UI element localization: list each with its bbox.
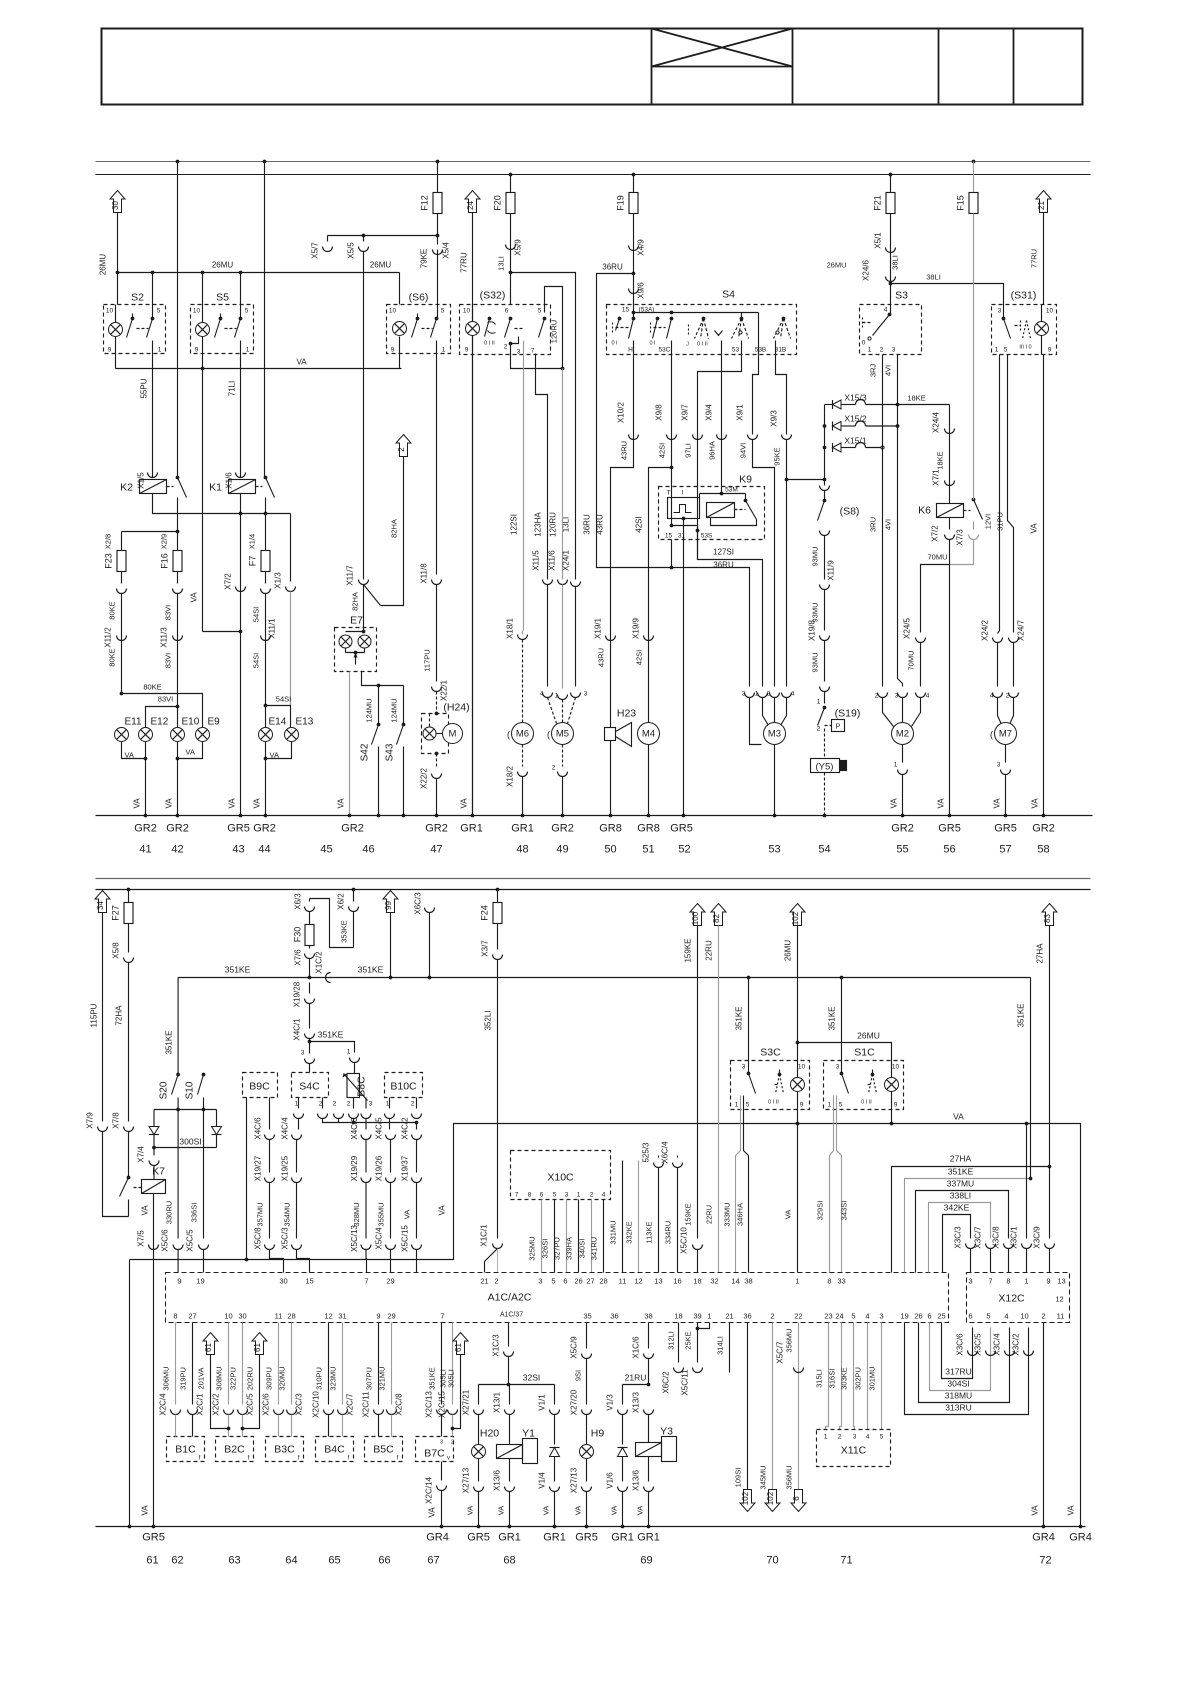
svg-text:3: 3 bbox=[853, 1434, 857, 1441]
svg-text:X2C/1: X2C/1 bbox=[196, 1393, 205, 1416]
connector X19/28 bbox=[305, 999, 315, 1004]
svg-text:5: 5 bbox=[553, 1192, 557, 1199]
wire bus to K1 contact bbox=[264, 162, 266, 478]
wire 310PU pin12 to B4C bbox=[328, 1323, 330, 1405]
S5 link dashed bbox=[225, 328, 237, 330]
svg-text:GR2: GR2 bbox=[891, 823, 914, 835]
wire S31 pin9 to ground bbox=[1043, 355, 1045, 816]
svg-text:X7/4: X7/4 bbox=[137, 1146, 146, 1163]
title block crossed cell bbox=[651, 29, 653, 105]
svg-text:9: 9 bbox=[894, 1102, 898, 1109]
connector S4C pin3 bbox=[305, 1059, 315, 1064]
relay K2 bbox=[140, 480, 167, 494]
svg-text:X7/2: X7/2 bbox=[931, 525, 940, 542]
wire 351KE to S1C bbox=[840, 976, 844, 980]
svg-text:42SI: 42SI bbox=[635, 650, 644, 665]
svg-text:70: 70 bbox=[766, 1555, 778, 1567]
junction 54SI bbox=[264, 704, 268, 708]
svg-text:69: 69 bbox=[640, 1555, 652, 1567]
svg-text:F19: F19 bbox=[616, 195, 626, 211]
wire B9C right pin bbox=[269, 1098, 271, 1130]
wire S3C pin9 to VA bbox=[797, 1110, 799, 1124]
svg-text:X24/4: X24/4 bbox=[932, 411, 941, 432]
connector M5 pin2 bbox=[558, 772, 568, 777]
svg-text:64: 64 bbox=[285, 1555, 297, 1567]
svg-text:325MU: 325MU bbox=[528, 1236, 537, 1260]
wire H23 to ground bbox=[610, 741, 612, 816]
junction X5/5 bbox=[362, 234, 366, 238]
connector X5C/9 bbox=[582, 1354, 592, 1359]
svg-text:X1/5: X1/5 bbox=[137, 472, 146, 489]
svg-text:3: 3 bbox=[892, 347, 896, 354]
link rail below sensors bbox=[323, 1119, 417, 1130]
svg-text:26: 26 bbox=[914, 1312, 922, 1321]
svg-text:X1C/6: X1C/6 bbox=[632, 1336, 641, 1359]
svg-text:VA: VA bbox=[784, 1210, 793, 1219]
svg-text:X5/5: X5/5 bbox=[347, 242, 356, 259]
svg-text:VA: VA bbox=[890, 798, 899, 809]
wire K1 contact down bbox=[265, 498, 267, 514]
svg-text:32SI: 32SI bbox=[523, 1373, 541, 1383]
svg-text:VA: VA bbox=[636, 1506, 645, 1515]
S32 pin 2 junction bbox=[509, 342, 513, 346]
svg-text:S5: S5 bbox=[216, 292, 229, 304]
wires S3C pins down bbox=[736, 1096, 741, 1156]
svg-text:159KE: 159KE bbox=[684, 1203, 693, 1226]
svg-text:201VA: 201VA bbox=[197, 1368, 206, 1390]
wire 21RU rail bbox=[648, 1323, 650, 1349]
relay K7 bbox=[142, 1180, 166, 1194]
junction S4 rail bbox=[670, 311, 674, 315]
wire 338LI bracket pin24 to X3C/7 bbox=[929, 1203, 991, 1273]
svg-text:2: 2 bbox=[767, 691, 771, 698]
svg-text:K1: K1 bbox=[209, 482, 222, 494]
svg-text:VA: VA bbox=[610, 1506, 619, 1515]
svg-text:X4C/1: X4C/1 bbox=[293, 1018, 302, 1041]
svg-text:31PU: 31PU bbox=[996, 512, 1005, 531]
svg-text:16: 16 bbox=[673, 1277, 681, 1286]
svg-text:X19/37: X19/37 bbox=[401, 1155, 410, 1181]
connector X27/13 b bbox=[582, 1487, 592, 1492]
svg-text:12: 12 bbox=[324, 1312, 332, 1321]
svg-text:80KE: 80KE bbox=[108, 648, 117, 666]
svg-text:X3C/6: X3C/6 bbox=[956, 1333, 965, 1356]
svg-text:124MU: 124MU bbox=[390, 698, 399, 722]
svg-text:X22/2: X22/2 bbox=[420, 767, 429, 788]
svg-text:31: 31 bbox=[678, 533, 686, 540]
K2 contact bbox=[176, 476, 180, 480]
svg-text:30: 30 bbox=[279, 1277, 287, 1286]
svg-text:GR2: GR2 bbox=[551, 823, 574, 835]
motor M3 bbox=[764, 723, 786, 745]
svg-text:351KE: 351KE bbox=[828, 1006, 837, 1030]
svg-text:14: 14 bbox=[731, 1277, 739, 1286]
svg-text:339HA: 339HA bbox=[565, 1237, 574, 1260]
svg-text:11: 11 bbox=[619, 1277, 627, 1286]
svg-text:2: 2 bbox=[770, 1312, 774, 1321]
svg-text:1: 1 bbox=[868, 347, 872, 354]
connector X10C bbox=[511, 1151, 611, 1200]
svg-text:1: 1 bbox=[555, 693, 559, 700]
connector X5C/11 bbox=[693, 1368, 703, 1373]
svg-text:53: 53 bbox=[732, 347, 740, 354]
svg-text:83: 83 bbox=[1043, 914, 1052, 923]
wire 120RU down gray bbox=[562, 369, 564, 580]
switch S10 bbox=[202, 1073, 206, 1077]
svg-text:4: 4 bbox=[1004, 1312, 1008, 1321]
svg-text:42: 42 bbox=[171, 844, 183, 856]
svg-text:S1C: S1C bbox=[854, 1047, 875, 1059]
connector X10/2 bbox=[629, 435, 639, 440]
svg-text:2: 2 bbox=[333, 1101, 337, 1108]
svg-text:M3: M3 bbox=[768, 729, 781, 740]
svg-text:X2C/3: X2C/3 bbox=[295, 1393, 304, 1416]
wire 25KE X5C/11 bbox=[697, 1323, 699, 1363]
wire VA rail y368 bbox=[116, 368, 402, 370]
svg-text:6: 6 bbox=[540, 1192, 544, 1199]
svg-text:13: 13 bbox=[1057, 1277, 1065, 1286]
wire M3 to ground bbox=[774, 745, 776, 816]
title block divider 4 bbox=[1013, 29, 1015, 105]
svg-text:GR2: GR2 bbox=[425, 823, 448, 835]
svg-text:0 I: 0 I bbox=[611, 341, 618, 347]
svg-text:X2C/6: X2C/6 bbox=[262, 1393, 271, 1416]
wire 122SI S32 pin3 (gray) bbox=[523, 341, 525, 631]
wire 331MU bbox=[622, 1161, 624, 1273]
svg-text:X2C/10: X2C/10 bbox=[312, 1391, 321, 1418]
svg-text:X11/1: X11/1 bbox=[268, 618, 277, 639]
svg-text:X27/13: X27/13 bbox=[570, 1467, 579, 1493]
junction 36RU K9 bbox=[670, 566, 674, 570]
svg-text:GR1: GR1 bbox=[611, 1532, 634, 1544]
wire 27HA bbox=[1049, 926, 1051, 1239]
svg-text:57: 57 bbox=[999, 844, 1011, 856]
diode pack X15 bbox=[824, 405, 826, 486]
wire S6 lamp to VA bbox=[399, 354, 401, 369]
connector X7/4 bbox=[149, 1161, 159, 1166]
svg-text:X2C/2: X2C/2 bbox=[212, 1393, 221, 1416]
connector X2C/10 bbox=[324, 1410, 334, 1415]
svg-text:1: 1 bbox=[828, 1102, 832, 1109]
svg-text:(S32): (S32) bbox=[480, 290, 506, 302]
svg-text:5: 5 bbox=[245, 308, 249, 315]
connector X1/5 bbox=[148, 473, 158, 478]
svg-text:22: 22 bbox=[794, 1312, 802, 1321]
svg-text:44: 44 bbox=[258, 844, 270, 856]
svg-text:S4C: S4C bbox=[299, 1081, 320, 1093]
connector X2C/2 bbox=[224, 1410, 234, 1415]
wire VA rail bottom bbox=[130, 1124, 1081, 1527]
svg-text:3: 3 bbox=[538, 1277, 542, 1286]
M5 lead dashed b bbox=[562, 700, 564, 724]
svg-text:X6C/3: X6C/3 bbox=[414, 892, 423, 915]
M3 connector arcs bbox=[745, 693, 755, 698]
top supply bus line 2 bbox=[96, 174, 1091, 176]
connector X11/1 bbox=[261, 636, 271, 641]
svg-text:2: 2 bbox=[411, 1101, 415, 1108]
S4 contact 3 (J) multiposition bbox=[702, 317, 706, 321]
connector X5C/7 bbox=[794, 1368, 804, 1373]
junction on bus2 x=510 bbox=[509, 173, 513, 177]
connector X11/6 bbox=[558, 580, 568, 585]
svg-text:122SI: 122SI bbox=[510, 514, 519, 535]
svg-text:202RU: 202RU bbox=[246, 1367, 255, 1390]
svg-text:0: 0 bbox=[862, 340, 866, 347]
svg-text:338LI: 338LI bbox=[950, 1191, 971, 1201]
svg-text:X3C/5: X3C/5 bbox=[974, 1333, 983, 1356]
column X4C/3 328MU bbox=[365, 1119, 367, 1130]
wire pin1 bridge bbox=[698, 1323, 710, 1329]
svg-text:9: 9 bbox=[391, 347, 395, 354]
K9 link dashed bbox=[735, 509, 746, 511]
relay K6 bbox=[937, 504, 964, 518]
wire 329SI to pin8 bbox=[830, 1096, 834, 1273]
wire K2 contact down bbox=[177, 498, 179, 551]
svg-text:93MU: 93MU bbox=[811, 602, 820, 622]
svg-text:83VI: 83VI bbox=[158, 695, 173, 704]
svg-text:6: 6 bbox=[505, 308, 509, 315]
svg-text:E13: E13 bbox=[296, 717, 314, 728]
reference arrow 102 down a bbox=[740, 1490, 755, 1512]
switch (S32) bbox=[460, 305, 551, 355]
svg-text:353KE: 353KE bbox=[340, 920, 349, 943]
wire E7 right to S42/S43 bbox=[362, 672, 404, 686]
svg-text:X9/7: X9/7 bbox=[681, 404, 690, 421]
svg-text:341RU: 341RU bbox=[590, 1237, 599, 1260]
wire X12C pin2 to ground bbox=[1043, 1323, 1045, 1527]
junction on bus2 x=890 bbox=[889, 173, 893, 177]
svg-text:120RU: 120RU bbox=[549, 512, 558, 537]
wire 342KE bracket pin31 to X3C/3 bbox=[943, 1215, 971, 1273]
svg-text:61: 61 bbox=[204, 1343, 213, 1352]
wire K7 coil to ground bbox=[153, 1194, 155, 1527]
svg-text:331MU: 331MU bbox=[609, 1220, 618, 1244]
svg-text:9: 9 bbox=[465, 347, 469, 354]
column X4C/4 354MU bbox=[298, 1119, 300, 1130]
S4 contact 5 (31B) bbox=[782, 317, 786, 321]
wire 306MU pin8 to B1C bbox=[175, 1323, 177, 1405]
S3 contact bbox=[888, 313, 892, 317]
branch to F23 bbox=[122, 531, 178, 533]
svg-text:GR5: GR5 bbox=[938, 823, 961, 835]
svg-text:102: 102 bbox=[791, 911, 800, 925]
junction 26MU to S2 switch bbox=[151, 271, 155, 275]
svg-text:X5C/6: X5C/6 bbox=[161, 1229, 170, 1252]
M5 bottom dashed bbox=[562, 745, 564, 767]
connector X13/1 bbox=[505, 1410, 515, 1415]
wires to X11C bbox=[826, 1323, 829, 1430]
E10/E9 bottoms bbox=[178, 742, 203, 759]
wire VA to ground bbox=[240, 632, 242, 816]
K9 timer box bbox=[668, 498, 700, 519]
svg-text:321MU: 321MU bbox=[378, 1366, 387, 1390]
diode V1 column bbox=[554, 1385, 556, 1405]
svg-text:X3C/3: X3C/3 bbox=[954, 1226, 963, 1249]
connector X3C/5 bbox=[986, 1351, 996, 1356]
connector X2C/13 bbox=[437, 1410, 447, 1415]
switch S2 bbox=[104, 305, 166, 354]
svg-text:X27/13: X27/13 bbox=[462, 1467, 471, 1493]
svg-text:VA: VA bbox=[953, 1112, 964, 1122]
svg-text:102: 102 bbox=[766, 1491, 775, 1505]
svg-text:VA: VA bbox=[574, 1506, 583, 1515]
svg-text:82HA: 82HA bbox=[390, 519, 399, 538]
svg-text:GR4: GR4 bbox=[1032, 1532, 1055, 1544]
M6 bottom dashed bbox=[522, 745, 524, 767]
svg-text:X10C: X10C bbox=[547, 1172, 574, 1184]
S2 contact b bbox=[151, 317, 155, 321]
connector X7/1 bbox=[945, 481, 955, 486]
svg-text:VA: VA bbox=[133, 798, 142, 809]
reference arrow 102 bbox=[790, 904, 805, 926]
svg-text:VA: VA bbox=[937, 798, 946, 809]
svg-text:5: 5 bbox=[839, 1102, 843, 1109]
svg-text:19: 19 bbox=[196, 1277, 204, 1286]
wire 123HA S32 pin7 bbox=[536, 354, 548, 580]
svg-text:S2: S2 bbox=[131, 292, 144, 304]
M5 lead dashed c bbox=[568, 698, 576, 724]
connector X9/6 bbox=[629, 289, 639, 294]
svg-text:50: 50 bbox=[604, 844, 616, 856]
svg-text:X5C/5: X5C/5 bbox=[186, 1229, 195, 1252]
connector B10C pin2 bbox=[412, 1114, 422, 1119]
svg-text:61: 61 bbox=[146, 1555, 158, 1567]
svg-text:3: 3 bbox=[997, 762, 1001, 769]
motor in H24 bbox=[443, 724, 463, 744]
svg-text:43RU: 43RU bbox=[596, 514, 605, 535]
connector X6C/2 bbox=[674, 1368, 684, 1373]
svg-text:36: 36 bbox=[610, 1312, 618, 1321]
wire 95KE (31B) bbox=[776, 341, 787, 435]
svg-text:S3: S3 bbox=[895, 290, 908, 302]
svg-text:2: 2 bbox=[838, 1434, 842, 1441]
connector X27/13 bbox=[474, 1487, 484, 1492]
svg-text:35: 35 bbox=[583, 1312, 591, 1321]
svg-text:22RU: 22RU bbox=[705, 940, 714, 961]
svg-text:94VI: 94VI bbox=[739, 443, 748, 458]
connector X11/7 bbox=[359, 580, 369, 585]
svg-text:V1/4: V1/4 bbox=[538, 1472, 547, 1489]
svg-text:X19/26: X19/26 bbox=[375, 1155, 384, 1181]
svg-text:351KE: 351KE bbox=[735, 1006, 744, 1030]
wire M4 to ground bbox=[648, 745, 650, 816]
connector X27/20 bbox=[582, 1410, 592, 1415]
svg-text:X2C/11: X2C/11 bbox=[362, 1391, 371, 1418]
connector A1C/A2C bbox=[166, 1273, 949, 1323]
svg-text:24: 24 bbox=[466, 201, 475, 210]
svg-text:F12: F12 bbox=[420, 195, 430, 211]
wire 18KE to K6 bbox=[949, 405, 951, 504]
svg-text:E14: E14 bbox=[269, 717, 287, 728]
connector X1C/1 bbox=[493, 1244, 503, 1249]
motor M6 bbox=[512, 723, 534, 745]
connector X2C/7 bbox=[338, 1410, 348, 1415]
junction 26MU to S5 switch bbox=[239, 271, 243, 275]
svg-text:68: 68 bbox=[503, 1555, 515, 1567]
svg-text:X5/9: X5/9 bbox=[514, 239, 523, 256]
svg-text:VA: VA bbox=[296, 358, 307, 367]
S1C contact bbox=[840, 1072, 844, 1076]
svg-text:4VI: 4VI bbox=[884, 365, 893, 376]
switch (S6) bbox=[387, 305, 451, 354]
connector X12C bbox=[967, 1273, 1070, 1323]
svg-text:GR1: GR1 bbox=[511, 823, 534, 835]
connector B8C pin2 b bbox=[349, 1114, 359, 1119]
connector X1/4 bbox=[261, 589, 271, 594]
svg-text:53B: 53B bbox=[755, 347, 767, 354]
svg-text:38: 38 bbox=[644, 1312, 652, 1321]
svg-text:M6: M6 bbox=[516, 729, 529, 740]
svg-text:X2/8: X2/8 bbox=[104, 534, 113, 549]
svg-text:H23: H23 bbox=[617, 708, 636, 720]
svg-text:49: 49 bbox=[556, 844, 568, 856]
diode b bbox=[212, 1127, 222, 1135]
svg-text:56: 56 bbox=[943, 844, 955, 856]
svg-text:F27: F27 bbox=[111, 905, 121, 921]
S4 V mark bbox=[715, 331, 723, 336]
svg-text:GR1: GR1 bbox=[460, 823, 483, 835]
svg-text:5: 5 bbox=[986, 1312, 990, 1321]
dashed wire Y5 to ground bbox=[824, 773, 826, 816]
svg-text:2: 2 bbox=[1006, 693, 1010, 700]
svg-text:X2C/14: X2C/14 bbox=[425, 1477, 434, 1504]
svg-text:B1C: B1C bbox=[175, 1444, 196, 1456]
svg-text:320MU: 320MU bbox=[278, 1366, 287, 1390]
svg-text:X11/3: X11/3 bbox=[160, 627, 169, 648]
svg-text:VA: VA bbox=[141, 1205, 150, 1216]
svg-text:346HA: 346HA bbox=[736, 1203, 745, 1226]
svg-text:26MU: 26MU bbox=[370, 261, 392, 270]
connector X7/6 bbox=[305, 954, 315, 959]
svg-text:113KE: 113KE bbox=[645, 1222, 654, 1244]
svg-text:351KE: 351KE bbox=[318, 1030, 344, 1040]
svg-text:A1C/37: A1C/37 bbox=[500, 1312, 523, 1319]
svg-text:S43: S43 bbox=[385, 743, 396, 761]
wire 3RU link bbox=[866, 447, 883, 449]
svg-text:42SI: 42SI bbox=[635, 516, 644, 532]
junction S4 pin15 bbox=[632, 311, 636, 315]
svg-text:VA: VA bbox=[125, 751, 134, 760]
wire 332KE bbox=[638, 1161, 640, 1273]
connector S19 feed bbox=[820, 687, 830, 692]
svg-text:36RU: 36RU bbox=[602, 263, 623, 272]
svg-text:X18/2: X18/2 bbox=[506, 765, 515, 786]
svg-text:1: 1 bbox=[1024, 1277, 1028, 1286]
svg-text:GR2: GR2 bbox=[1032, 823, 1055, 835]
section divider line 1 bbox=[96, 878, 1091, 880]
S32 contact b bbox=[509, 317, 513, 321]
svg-text:4: 4 bbox=[990, 693, 994, 700]
svg-text:22RU: 22RU bbox=[705, 1205, 714, 1224]
svg-text:K2: K2 bbox=[120, 482, 133, 494]
wire X18/1 to M6 dashed bbox=[522, 640, 524, 723]
svg-text:X24/1: X24/1 bbox=[562, 549, 571, 570]
connector X3C/1 bbox=[1022, 1244, 1032, 1249]
svg-text:5: 5 bbox=[746, 1102, 750, 1109]
junction VA X3C/1 bbox=[1025, 1122, 1029, 1126]
svg-text:X5C/9: X5C/9 bbox=[570, 1336, 579, 1359]
svg-text:330RU: 330RU bbox=[165, 1201, 174, 1224]
svg-text:X12C: X12C bbox=[998, 1293, 1025, 1305]
svg-text:2: 2 bbox=[817, 726, 821, 733]
svg-text:356MU: 356MU bbox=[785, 1328, 794, 1352]
switch S41 blade bbox=[364, 585, 381, 606]
junction 351KE to B8C bbox=[308, 1040, 312, 1044]
wire 351KE pin7 to B7C bbox=[441, 1323, 443, 1405]
svg-text:334RU: 334RU bbox=[664, 1221, 673, 1244]
junction VA S1C bbox=[890, 1122, 894, 1126]
svg-text:0 I II: 0 I II bbox=[768, 1100, 779, 1106]
